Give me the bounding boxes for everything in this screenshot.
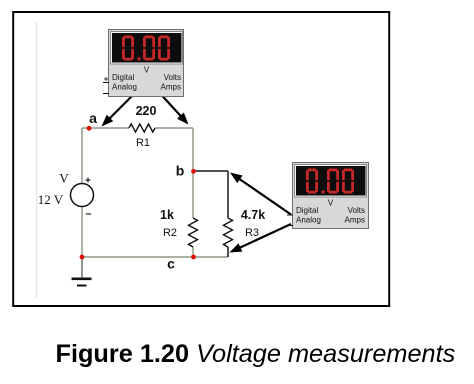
svg-text:220: 220: [136, 104, 157, 118]
svg-text:Analog: Analog: [112, 83, 137, 92]
svg-text:R3: R3: [245, 227, 259, 239]
svg-text:V: V: [328, 199, 334, 208]
svg-text:12 V: 12 V: [38, 192, 64, 207]
svg-text:V: V: [144, 66, 150, 75]
svg-text:Volts: Volts: [348, 206, 365, 215]
svg-text:4.7k: 4.7k: [241, 208, 265, 222]
svg-text:R1: R1: [136, 137, 150, 149]
svg-text:1k: 1k: [160, 208, 174, 222]
svg-text:Volts: Volts: [164, 73, 181, 82]
svg-text:Digital: Digital: [296, 206, 318, 215]
svg-text:a: a: [89, 110, 97, 126]
svg-text:b: b: [176, 163, 185, 179]
svg-text:Digital: Digital: [112, 73, 134, 82]
svg-text:R2: R2: [163, 227, 177, 239]
svg-text:Figure 1.20 Voltage measuremen: Figure 1.20 Voltage measurements: [56, 340, 456, 368]
svg-text:c: c: [167, 256, 175, 272]
svg-text:Amps: Amps: [345, 216, 365, 225]
svg-text:V: V: [59, 171, 69, 186]
svg-text:Amps: Amps: [161, 83, 181, 92]
svg-text:Analog: Analog: [296, 216, 321, 225]
